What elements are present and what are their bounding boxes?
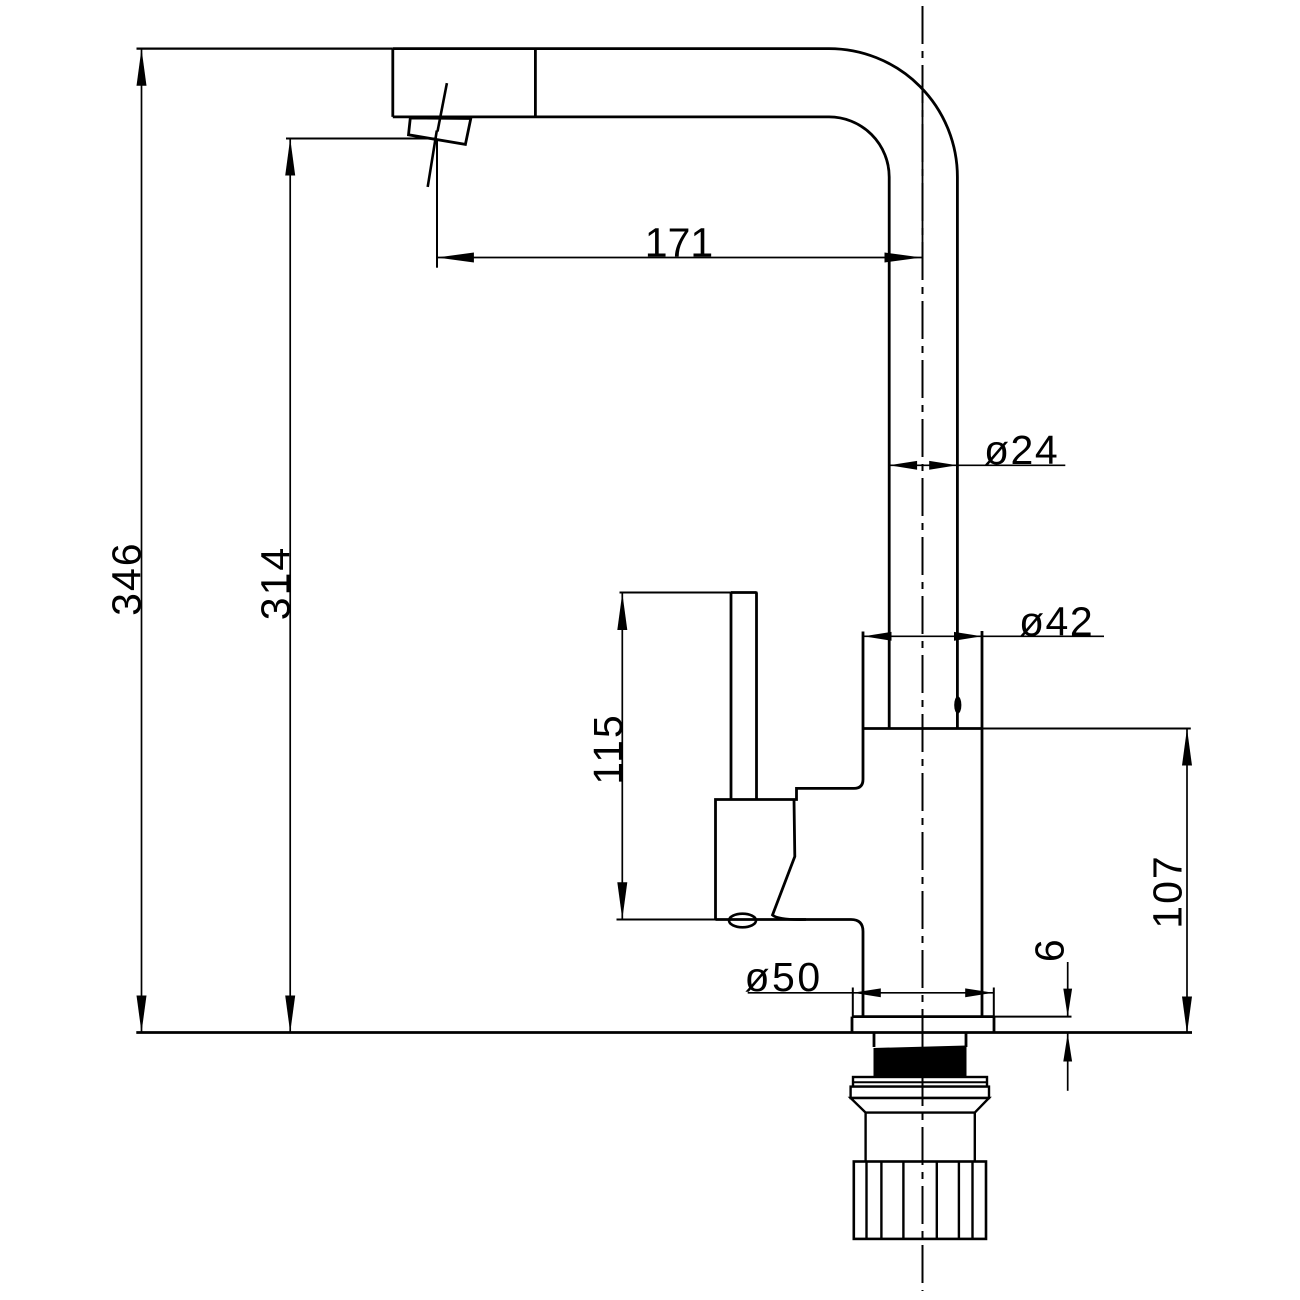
svg-text:171: 171 <box>645 219 713 265</box>
svg-text:346: 346 <box>104 541 150 615</box>
svg-text:314: 314 <box>253 546 299 620</box>
svg-text:6: 6 <box>1027 939 1073 962</box>
svg-text:107: 107 <box>1145 854 1191 928</box>
svg-text:115: 115 <box>585 713 631 784</box>
svg-text:ø42: ø42 <box>1019 599 1094 645</box>
svg-text:ø50: ø50 <box>745 954 823 1000</box>
svg-text:ø24: ø24 <box>984 427 1059 473</box>
